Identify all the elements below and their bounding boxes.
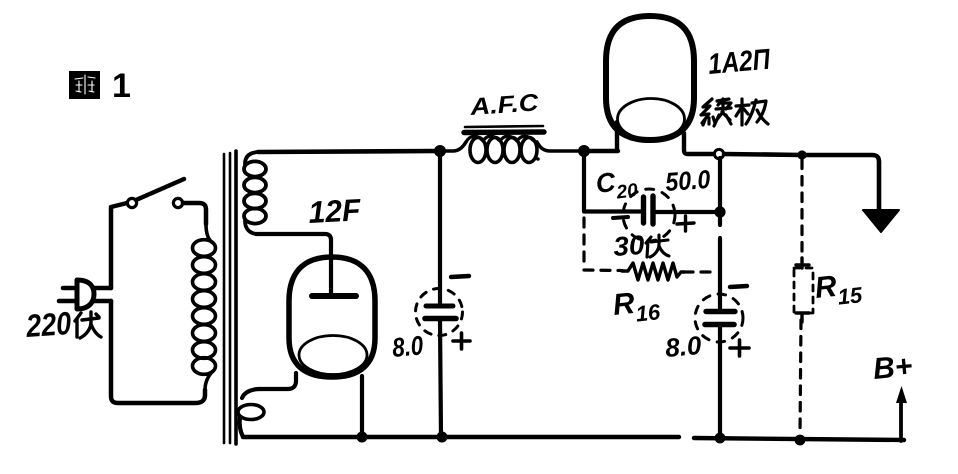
R16 zigzag	[622, 263, 684, 280]
C20 block: left branch	[584, 151, 721, 212]
svg-text:B+: B+	[872, 350, 914, 386]
svg-text:220: 220	[24, 305, 72, 344]
junction: 12F cathode to bottom rail	[357, 432, 368, 443]
junction A dot	[434, 145, 446, 157]
transformer primary winding	[193, 224, 216, 390]
cap1 polarity	[451, 276, 469, 277]
top rail right: to ground	[724, 154, 879, 211]
tube 1A2P envelope	[606, 16, 694, 140]
grid-cap open terminal	[714, 149, 723, 158]
svg-text:C20: C20	[594, 164, 639, 206]
junction: cap1 negative to bottom rail	[437, 432, 448, 443]
AFC coil trailing ink dot	[536, 157, 540, 161]
bottom rail	[243, 437, 904, 440]
C20 plates	[644, 196, 654, 224]
B+ output arrow	[899, 396, 903, 441]
figure label 圖 1	[69, 67, 131, 105]
R16 dashed branch	[584, 218, 714, 272]
svg-text:50.0: 50.0	[664, 164, 711, 197]
label 220伏	[24, 305, 101, 344]
svg-text:30: 30	[612, 230, 645, 262]
svg-text:8.0: 8.0	[664, 330, 703, 363]
wire: secondary top to junction A	[258, 151, 439, 152]
wire junction B to tube 1A2P left lead	[584, 149, 618, 153]
R15 dashed branch	[800, 160, 802, 435]
ground symbol	[863, 210, 899, 232]
mains plug	[59, 280, 111, 309]
svg-text:A.F.C: A.F.C	[468, 89, 540, 121]
svg-text:1A2П: 1A2П	[707, 44, 773, 81]
wire: secondary bottom to 12F grid-cap	[256, 234, 331, 293]
junction B dot	[578, 145, 590, 157]
cap1 plates	[425, 306, 456, 319]
label filament 缘极 (hand-drawn)	[701, 99, 768, 126]
label 30伏	[612, 230, 669, 262]
wire: left loop vertical + bottom	[111, 203, 205, 403]
svg-text:1: 1	[112, 67, 131, 105]
tube 1A2P leads	[617, 122, 715, 154]
svg-text:12F: 12F	[308, 192, 363, 230]
C20 dashed circle	[623, 189, 675, 241]
C20 right junction dot	[714, 206, 725, 217]
svg-text:R15: R15	[813, 267, 864, 312]
svg-text:R16: R16	[611, 284, 662, 329]
cap2 polarity	[730, 286, 747, 287]
switch S	[127, 179, 206, 224]
tube 12F leads	[238, 373, 362, 437]
R15 top junction dot	[797, 150, 806, 159]
cap1 dashed circle	[416, 289, 463, 336]
cap2 dashed circle	[695, 294, 743, 342]
filter cap no.2 (8.0) branch	[718, 212, 722, 438]
C20 polarity	[613, 217, 628, 218]
junction: R15 to bottom rail	[795, 435, 806, 446]
AFC core bars	[464, 126, 544, 133]
svg-text:8.0: 8.0	[391, 330, 424, 363]
transformer HV secondary (top)	[244, 152, 266, 234]
junction: cap2 positive to bottom rail	[715, 433, 726, 444]
AFC choke coil	[440, 136, 584, 162]
tube 12F envelope	[289, 257, 375, 377]
transformer core	[224, 151, 236, 444]
cap2 plates	[705, 312, 735, 325]
R15 body	[794, 258, 813, 322]
filter cap C (8.0) no.1 lead	[440, 151, 441, 437]
